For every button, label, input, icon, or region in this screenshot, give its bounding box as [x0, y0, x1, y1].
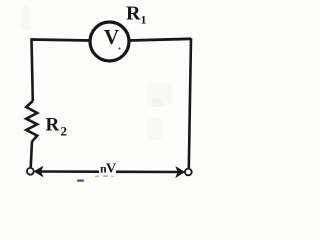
svg-text:V: V: [104, 25, 119, 49]
svg-text:R: R: [46, 115, 60, 136]
svg-text:2: 2: [61, 124, 68, 139]
svg-text:1: 1: [141, 13, 147, 27]
svg-text:V: V: [106, 162, 116, 177]
svg-text:R: R: [126, 3, 141, 25]
